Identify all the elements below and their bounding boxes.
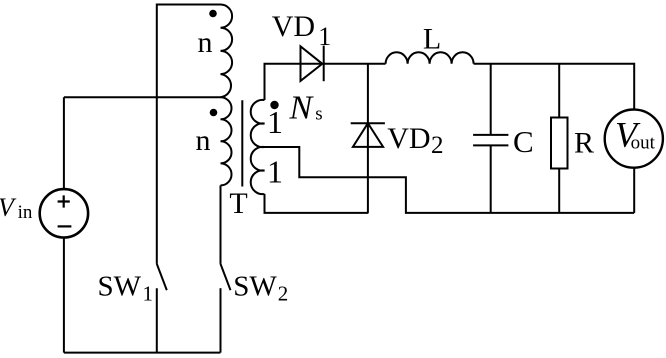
switch SW1	[157, 264, 167, 290]
transformer secondary winding 1 (top, Ns)	[251, 100, 265, 147]
switch SW2	[221, 264, 231, 290]
polarity dot secondary	[270, 101, 278, 109]
svg-text:N: N	[289, 90, 315, 127]
svg-text:C: C	[513, 124, 534, 159]
svg-text:n: n	[196, 124, 211, 157]
capacitor C top lead	[490, 64, 492, 135]
transformer secondary winding 2 (bottom)	[251, 147, 265, 194]
svg-text:T: T	[229, 187, 247, 220]
svg-text:2: 2	[431, 132, 444, 159]
wire Vin top lead	[63, 97, 65, 189]
svg-text:L: L	[423, 22, 441, 55]
wire top-left from SW1 line to primary winding 1 top	[157, 5, 221, 264]
wire primary winding 2 bottom to SW2	[220, 185, 222, 264]
diode VD2	[351, 122, 385, 124]
transformer primary winding n (top)	[221, 5, 233, 98]
wire Vin bottom lead	[63, 237, 65, 352]
resistor R bottom lead	[558, 169, 560, 213]
source Vin circle	[40, 189, 88, 237]
resistor R body	[551, 118, 568, 169]
svg-text:1: 1	[267, 104, 283, 140]
meter Vout circle	[605, 110, 663, 168]
svg-text:in: in	[18, 202, 33, 223]
svg-text:VD: VD	[272, 10, 315, 43]
svg-text:2: 2	[278, 281, 289, 305]
svg-text:out: out	[631, 133, 656, 154]
svg-text:R: R	[574, 126, 594, 159]
diode VD2 lead	[367, 64, 369, 213]
transformer core	[241, 100, 243, 186]
svg-text:1: 1	[143, 281, 154, 305]
resistor R top lead	[558, 64, 560, 118]
svg-text:SW: SW	[233, 270, 277, 302]
svg-text:SW: SW	[98, 270, 142, 302]
wire bottom rail primary side	[64, 352, 221, 354]
svg-text:1: 1	[267, 154, 283, 190]
transformer primary winding n (bottom)	[221, 97, 232, 185]
diode VD1	[301, 46, 323, 81]
svg-text:s: s	[315, 103, 322, 124]
svg-text:n: n	[198, 26, 213, 59]
wire secondary top riser and top rail through VD1 to L	[265, 64, 386, 100]
plus sign	[58, 195, 70, 207]
inductor L	[386, 52, 474, 63]
wire center tap step to output return rail	[265, 147, 635, 213]
capacitor C bottom lead	[490, 145, 492, 213]
wire secondary bottom to VD2 anode rail	[265, 194, 369, 213]
polarity dot primary 2	[210, 109, 218, 117]
wire top rail after L to Vout	[474, 64, 635, 110]
meter Vout bottom lead	[633, 168, 635, 213]
minus sign	[58, 225, 72, 227]
wire rail Vin+ to primary center tap	[64, 96, 221, 98]
svg-text:1: 1	[318, 22, 331, 51]
capacitor C plates	[473, 135, 508, 146]
svg-text:VD: VD	[387, 122, 430, 155]
polarity dot primary 1	[209, 10, 217, 18]
